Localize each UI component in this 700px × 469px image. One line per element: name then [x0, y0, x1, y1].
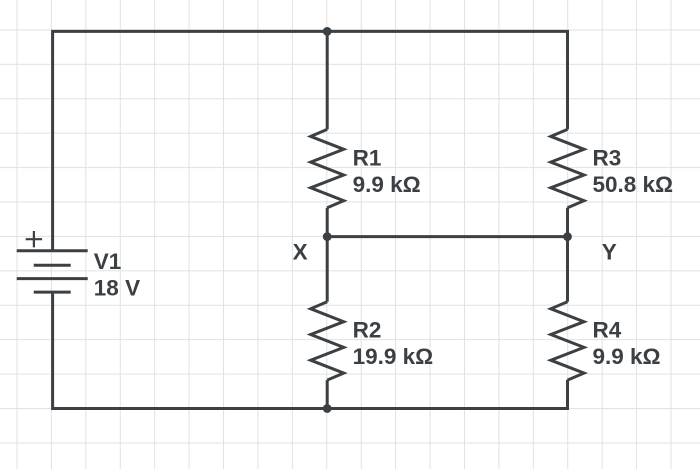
svg-text:R4: R4	[593, 318, 622, 343]
svg-text:R2: R2	[353, 318, 382, 343]
svg-text:19.9 kΩ: 19.9 kΩ	[353, 344, 434, 369]
svg-text:X: X	[293, 240, 308, 265]
svg-text:18 V: 18 V	[94, 275, 140, 300]
svg-text:R3: R3	[593, 146, 622, 171]
svg-text:9.9 kΩ: 9.9 kΩ	[593, 344, 661, 369]
svg-text:R1: R1	[353, 146, 382, 171]
svg-text:9.9 kΩ: 9.9 kΩ	[353, 172, 421, 197]
svg-text:50.8 kΩ: 50.8 kΩ	[593, 172, 674, 197]
svg-text:Y: Y	[602, 240, 617, 265]
svg-text:V1: V1	[94, 249, 122, 274]
